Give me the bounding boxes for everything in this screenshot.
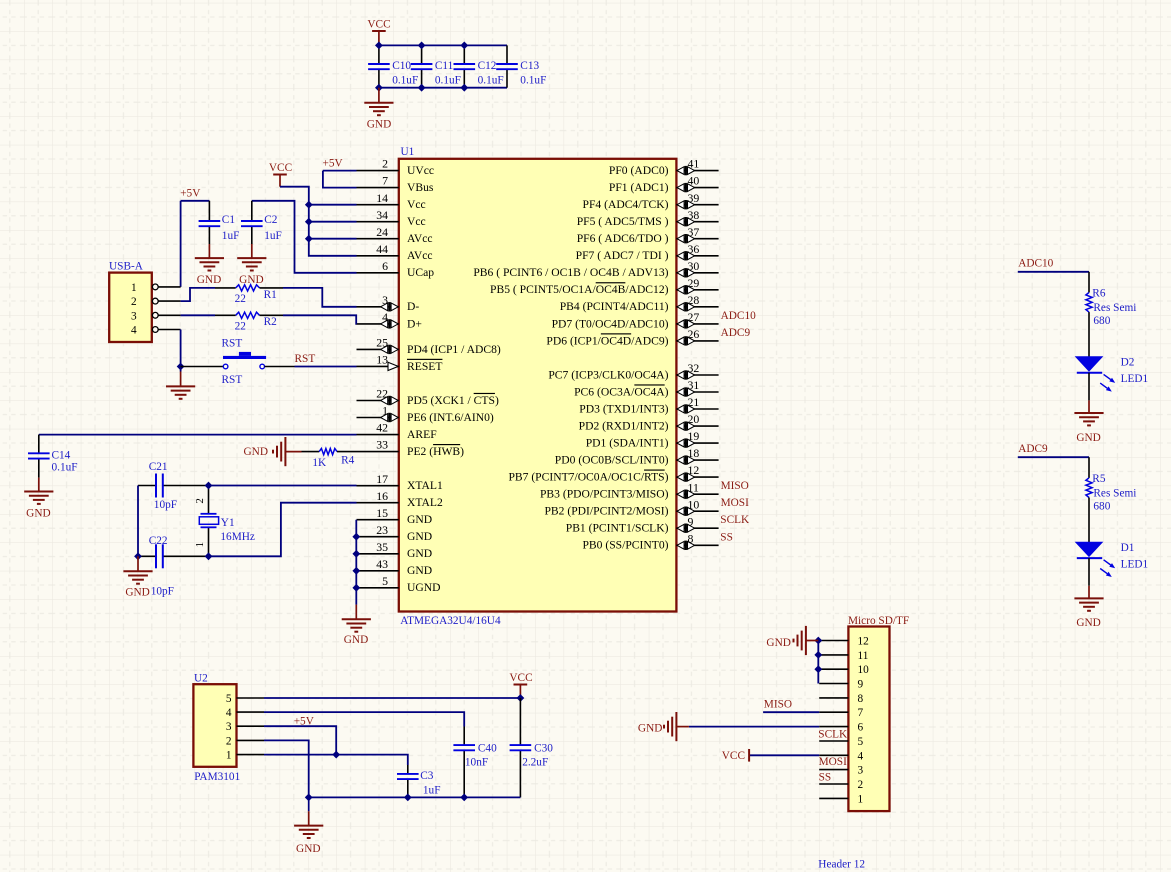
- svg-text:PD0 (OC0B/SCL/INT0): PD0 (OC0B/SCL/INT0): [555, 454, 669, 467]
- svg-text:1K: 1K: [312, 457, 327, 469]
- Micro SD pin 12: [819, 636, 869, 648]
- svg-text:GND: GND: [407, 547, 432, 560]
- svg-text:VBus: VBus: [407, 181, 434, 194]
- wire R2 to U1 pin 4: [283, 315, 357, 324]
- svg-text:Vcc: Vcc: [407, 198, 426, 211]
- ground GND under U1: [342, 605, 371, 647]
- svg-text:13: 13: [376, 353, 388, 367]
- ground GND under U2 rail: [294, 797, 323, 854]
- LED D2 LED1: [1076, 357, 1148, 392]
- wire U2 pin3 (+5V) down to pin1 rail: [264, 726, 336, 754]
- capacitor C40 10nF: [453, 727, 497, 798]
- svg-text:Res Semi: Res Semi: [1093, 302, 1136, 314]
- svg-text:21: 21: [688, 395, 700, 409]
- ground GND (sideways) at SD pin 6: [638, 712, 689, 741]
- svg-text:PD4 (ICP1 / ADC8): PD4 (ICP1 / ADC8): [407, 343, 501, 356]
- U1 pin 43 GND (left): [357, 557, 433, 577]
- svg-text:2: 2: [858, 779, 864, 791]
- svg-text:R4: R4: [341, 454, 355, 466]
- U1 pin 34 Vcc (left): [357, 208, 426, 228]
- U1 pin 35 GND (left): [357, 540, 433, 560]
- U1 pin 42 AREF (left): [357, 421, 438, 441]
- capacitor C3 1uF: [397, 765, 440, 797]
- svg-text:R6: R6: [1092, 288, 1106, 300]
- ground GND under C22 rail: [123, 556, 152, 598]
- svg-text:1uF: 1uF: [423, 784, 441, 796]
- svg-text:GND: GND: [26, 507, 50, 519]
- svg-text:RST: RST: [295, 353, 316, 365]
- svg-text:17: 17: [376, 472, 388, 486]
- wire SD pin 6 to GND: [689, 726, 819, 728]
- U1 pin 19 (right): [586, 429, 719, 449]
- svg-text:SCLK: SCLK: [818, 729, 848, 741]
- svg-text:D-: D-: [407, 300, 419, 313]
- svg-text:1: 1: [858, 793, 864, 805]
- svg-text:3: 3: [131, 310, 137, 322]
- U1 pin 12 (right): [508, 463, 718, 483]
- wire U1 GND bus (pins 15/23/35/43/5): [355, 520, 357, 605]
- U1 pin 15 GND (left): [357, 506, 433, 526]
- svg-text:41: 41: [688, 157, 700, 171]
- wire XTAL1 row: [138, 485, 357, 487]
- svg-text:RST: RST: [222, 374, 243, 386]
- svg-text:GND: GND: [1076, 617, 1100, 629]
- svg-text:PE2 (HWB): PE2 (HWB): [407, 445, 464, 458]
- svg-text:GND: GND: [197, 274, 221, 286]
- svg-text:GND: GND: [638, 722, 662, 734]
- svg-text:3: 3: [382, 293, 388, 307]
- svg-text:D+: D+: [407, 317, 422, 330]
- U1 pin 7 VBus (left): [357, 174, 434, 194]
- Micro SD pin 8: [819, 693, 863, 705]
- svg-text:4: 4: [226, 707, 232, 719]
- capacitor C1 1uF: [199, 201, 240, 244]
- svg-text:+5V: +5V: [180, 188, 201, 200]
- svg-text:PB0 (SS/PCINT0): PB0 (SS/PCINT0): [582, 539, 668, 552]
- U1 pin 2 UVcc (left): [357, 157, 435, 177]
- capacitor C13 0.1uF: [496, 45, 546, 87]
- svg-text:C10: C10: [392, 60, 411, 72]
- switch RST (push button): [222, 338, 267, 386]
- U1 pin 29 (right): [490, 276, 719, 296]
- svg-text:ADC10: ADC10: [1018, 258, 1053, 270]
- svg-text:42: 42: [376, 421, 388, 435]
- svg-text:1: 1: [226, 750, 232, 762]
- svg-text:35: 35: [376, 540, 388, 554]
- svg-text:0.1uF: 0.1uF: [392, 74, 418, 86]
- wire U2 pin4 to C40: [264, 712, 464, 726]
- wire USB pin4 down to GND: [180, 330, 182, 372]
- ground GND (sideways) at SD pin 12: [766, 626, 818, 655]
- svg-text:11: 11: [688, 480, 699, 494]
- svg-text:ADC9: ADC9: [721, 327, 751, 339]
- svg-text:UVcc: UVcc: [407, 164, 434, 177]
- capacitor C30 2.2uF: [510, 698, 554, 797]
- wire top bus of C10-C13: [379, 44, 507, 46]
- wire bottom bus of C10-C13: [379, 87, 507, 89]
- svg-text:C21: C21: [149, 461, 168, 473]
- U1 pin 5 UGND (left): [357, 574, 441, 594]
- U1 pin 33 name (left): [357, 438, 465, 458]
- U2 pin 5: [226, 693, 264, 705]
- svg-text:PE6 (INT.6/AIN0): PE6 (INT.6/AIN0): [407, 411, 494, 424]
- svg-text:40: 40: [688, 174, 700, 188]
- wire U2 pin1 to C3: [264, 755, 408, 765]
- Micro SD pin 10: [819, 664, 869, 676]
- capacitor C11 0.1uF: [411, 45, 461, 87]
- svg-text:Y1: Y1: [221, 517, 235, 529]
- svg-text:LED1: LED1: [1121, 558, 1149, 570]
- svg-text:+5V: +5V: [323, 158, 344, 170]
- junction dots crystal: [135, 482, 212, 559]
- capacitor C21 10pF: [149, 461, 177, 511]
- power port VCC (U1): [269, 162, 292, 187]
- svg-text:PD6 (ICP1/OC4D/ADC9): PD6 (ICP1/OC4D/ADC9): [546, 334, 668, 347]
- wire C14 to U1 AREF pin 42: [39, 434, 357, 436]
- svg-text:Micro SD/TF: Micro SD/TF: [848, 615, 909, 627]
- U1 pin 41 (right): [609, 157, 719, 177]
- U1 pin 8 (right): [582, 531, 718, 551]
- svg-text:30: 30: [688, 259, 700, 273]
- svg-text:PF6 ( ADC6/TDO ): PF6 ( ADC6/TDO ): [577, 232, 669, 245]
- power port VCC bar (SD pin 4): [722, 749, 749, 762]
- svg-text:LED1: LED1: [1121, 373, 1149, 385]
- svg-text:680: 680: [1093, 315, 1110, 327]
- svg-text:27: 27: [688, 310, 700, 324]
- svg-text:PD5 (XCK1 / CTS): PD5 (XCK1 / CTS): [407, 394, 499, 407]
- USB-A pin 2: [131, 296, 181, 308]
- USB-A pin 1: [131, 282, 181, 294]
- svg-text:UCap: UCap: [407, 266, 434, 279]
- U1 pin 20 (right): [579, 412, 719, 432]
- power port VCC (top bank): [367, 19, 390, 46]
- ground GND under C2: [237, 244, 266, 286]
- svg-text:USB-A: USB-A: [109, 260, 144, 272]
- svg-text:AVcc: AVcc: [407, 249, 433, 262]
- Micro SD pin 7: [819, 707, 863, 719]
- U1 pin 39 (right): [583, 191, 719, 211]
- LED D1 LED1: [1076, 542, 1148, 577]
- svg-text:PF1 (ADC1): PF1 (ADC1): [609, 181, 669, 194]
- svg-text:2.2uF: 2.2uF: [522, 757, 548, 769]
- resistor R1 22: [215, 285, 283, 305]
- svg-text:AVcc: AVcc: [407, 232, 433, 245]
- U2 pin 4: [226, 707, 264, 719]
- svg-text:+5V: +5V: [294, 715, 315, 727]
- USB-A pin 3: [131, 310, 181, 322]
- wire USB pin3 to R2: [181, 314, 215, 316]
- svg-text:XTAL1: XTAL1: [407, 479, 443, 492]
- svg-text:PB2 (PDI/PCINT2/MOSI): PB2 (PDI/PCINT2/MOSI): [544, 505, 668, 518]
- svg-text:0.1uF: 0.1uF: [435, 74, 461, 86]
- svg-text:C11: C11: [435, 60, 453, 72]
- svg-text:4: 4: [382, 310, 388, 324]
- svg-text:2: 2: [226, 735, 232, 747]
- U1 pin 10 (right): [544, 497, 718, 517]
- wire C2 to U1 UCap pin 6: [252, 201, 357, 273]
- svg-text:GND: GND: [1076, 432, 1100, 444]
- svg-text:AREF: AREF: [407, 428, 437, 441]
- U1 pin 27 (right): [552, 310, 719, 330]
- svg-text:R2: R2: [264, 316, 278, 328]
- svg-text:1: 1: [131, 282, 137, 294]
- svg-text:43: 43: [376, 557, 388, 571]
- Micro SD pin 11: [819, 650, 868, 662]
- svg-text:37: 37: [688, 225, 700, 239]
- svg-text:U1: U1: [401, 146, 415, 158]
- svg-text:22: 22: [235, 320, 247, 332]
- svg-text:MOSI: MOSI: [721, 497, 749, 509]
- svg-text:C3: C3: [420, 770, 434, 782]
- svg-text:3: 3: [226, 721, 232, 733]
- svg-text:10pF: 10pF: [151, 586, 174, 598]
- svg-text:16: 16: [376, 489, 388, 503]
- svg-text:C2: C2: [264, 214, 278, 226]
- svg-text:0.1uF: 0.1uF: [520, 74, 546, 86]
- svg-text:4: 4: [858, 750, 864, 762]
- svg-text:VCC: VCC: [367, 19, 390, 31]
- svg-text:PB1 (PCINT1/SCLK): PB1 (PCINT1/SCLK): [566, 522, 669, 535]
- svg-text:GND: GND: [344, 634, 368, 646]
- svg-text:5: 5: [226, 693, 232, 705]
- U1 pin 3 D- (left): [357, 293, 420, 313]
- svg-text:10pF: 10pF: [154, 499, 177, 511]
- power port VCC (U2): [509, 672, 532, 698]
- svg-text:32: 32: [688, 361, 700, 375]
- svg-text:29: 29: [688, 276, 700, 290]
- svg-text:PD7 (T0/OC4D/ADC10): PD7 (T0/OC4D/ADC10): [552, 317, 669, 330]
- svg-text:PF4 (ADC4/TCK): PF4 (ADC4/TCK): [583, 198, 669, 211]
- svg-text:2: 2: [131, 296, 137, 308]
- svg-text:VCC: VCC: [722, 750, 745, 762]
- capacitor C22 10pF: [149, 535, 174, 598]
- wire SD GND bus pins 12-9: [817, 641, 819, 684]
- U1 pin 11 (right): [540, 480, 719, 500]
- wire +5V to C1 and USB pin 1: [181, 200, 210, 202]
- U1 pin 31 (right): [574, 378, 718, 398]
- U1 pin 6 UCap (left): [357, 259, 435, 279]
- U1 pin 14 Vcc (left): [357, 191, 426, 211]
- svg-text:2: 2: [382, 157, 388, 171]
- svg-text:39: 39: [688, 191, 700, 205]
- wire RST switch to U1 pin 13: [265, 366, 357, 368]
- junction dots bottom rail: [306, 794, 468, 800]
- ground GND under C1: [195, 244, 224, 286]
- svg-text:PC6 (OC3A/OC4A): PC6 (OC3A/OC4A): [574, 385, 669, 398]
- Micro SD pin 1: [819, 793, 863, 805]
- ground under USB pin 4: [166, 372, 195, 399]
- junction dots GND bus: [353, 534, 359, 592]
- svg-text:PF0 (ADC0): PF0 (ADC0): [609, 164, 669, 177]
- U2 pin 1: [226, 750, 264, 762]
- capacitor C12 0.1uF: [454, 45, 504, 87]
- Micro SD pin 9: [819, 679, 863, 691]
- svg-text:Vcc: Vcc: [407, 215, 426, 228]
- svg-text:14: 14: [376, 191, 388, 205]
- wire R1 to U1 pin 3: [283, 288, 357, 307]
- svg-text:GND: GND: [407, 513, 432, 526]
- junction dot at RST tee: [177, 363, 183, 369]
- svg-text:22: 22: [235, 293, 247, 305]
- svg-text:5: 5: [858, 736, 864, 748]
- U1 pin 23 GND (left): [357, 523, 433, 543]
- svg-text:9: 9: [688, 514, 694, 528]
- svg-text:34: 34: [376, 208, 388, 222]
- svg-text:38: 38: [688, 208, 700, 222]
- junction dots SD GND bus: [815, 637, 821, 672]
- U1 pin 16 XTAL2 (left): [357, 489, 443, 509]
- svg-text:GND: GND: [296, 843, 320, 855]
- svg-text:MISO: MISO: [721, 480, 749, 492]
- svg-text:GND: GND: [125, 586, 149, 598]
- wire U2 pin2 down to GND rail: [264, 740, 309, 797]
- junction dots on cap bank buses: [376, 42, 468, 91]
- svg-text:R5: R5: [1092, 473, 1106, 485]
- svg-text:8: 8: [688, 531, 694, 545]
- Micro SD pin 3: [819, 765, 863, 777]
- svg-text:PD3 (TXD1/INT3): PD3 (TXD1/INT3): [579, 402, 668, 415]
- ground GND under D1: [1074, 586, 1103, 629]
- U1 pin 4 D+ (left): [357, 310, 422, 330]
- svg-text:1: 1: [382, 404, 388, 418]
- svg-text:Header 12: Header 12: [818, 859, 865, 871]
- svg-text:PAM3101: PAM3101: [194, 771, 240, 783]
- svg-text:PD2 (RXD1/INT2): PD2 (RXD1/INT2): [579, 420, 669, 433]
- wire LED to GND: [1088, 558, 1090, 586]
- svg-text:UGND: UGND: [407, 581, 441, 594]
- U1 pin 38 (right): [577, 208, 719, 228]
- U1 pin 36 (right): [576, 242, 719, 262]
- svg-text:8: 8: [858, 693, 864, 705]
- wire U2 pin5 to VCC: [264, 697, 520, 699]
- svg-text:VCC: VCC: [269, 162, 292, 174]
- svg-text:PB3 (PDO/PCINT3/MISO): PB3 (PDO/PCINT3/MISO): [540, 488, 669, 501]
- svg-text:MISO: MISO: [764, 699, 792, 711]
- Micro SD pin 6: [819, 722, 863, 734]
- U1 pin 17 XTAL1 (left): [357, 472, 443, 492]
- svg-text:1: 1: [194, 542, 206, 548]
- svg-text:XTAL2: XTAL2: [407, 496, 443, 509]
- svg-text:16MHz: 16MHz: [220, 531, 255, 543]
- resistor R6 Res Semi 680: [1086, 288, 1137, 357]
- svg-text:26: 26: [688, 327, 700, 341]
- wire +5V to U1 pin 2: [323, 170, 357, 172]
- U1 pin 26 (right): [546, 327, 718, 347]
- svg-text:33: 33: [376, 438, 388, 452]
- svg-text:5: 5: [382, 574, 388, 588]
- svg-text:Res Semi: Res Semi: [1093, 487, 1136, 499]
- svg-text:10nF: 10nF: [465, 757, 488, 769]
- U1 pin 28 (right): [560, 293, 719, 313]
- U1 pin 9 (right): [566, 514, 719, 534]
- wire VCC bus to U1 pins 14/34/24/44: [280, 187, 357, 256]
- svg-text:GND: GND: [239, 274, 263, 286]
- svg-text:PC7 (ICP3/CLK0/OC4A): PC7 (ICP3/CLK0/OC4A): [548, 368, 668, 381]
- junction dot pin1/+5V: [333, 751, 339, 757]
- svg-text:ATMEGA32U4/16U4: ATMEGA32U4/16U4: [400, 615, 501, 627]
- svg-text:C22: C22: [149, 535, 168, 547]
- wire LED to GND: [1088, 373, 1090, 401]
- svg-text:ADC9: ADC9: [1018, 443, 1048, 455]
- U1 pin 37 (right): [577, 225, 719, 245]
- wire MISO to SD pin 7: [763, 711, 819, 713]
- svg-text:C14: C14: [52, 449, 71, 461]
- wire ADC9 to resistor: [1018, 456, 1089, 458]
- wire ADC10 to resistor: [1018, 271, 1089, 273]
- svg-text:PB4 (PCINT4/ADC11): PB4 (PCINT4/ADC11): [560, 300, 669, 313]
- svg-text:RST: RST: [222, 338, 243, 350]
- svg-text:7: 7: [858, 707, 864, 719]
- capacitor C2 1uF: [241, 201, 282, 244]
- svg-text:PB7 (PCINT7/OC0A/OC1C/RTS): PB7 (PCINT7/OC0A/OC1C/RTS): [508, 471, 668, 484]
- U1 pin 30 (right): [473, 259, 718, 279]
- svg-text:SS: SS: [720, 531, 733, 543]
- svg-text:U2: U2: [194, 672, 208, 684]
- connector Micro SD/TF body: [848, 627, 889, 812]
- IC U1 ATMEGA32U4/16U4 body: [399, 159, 677, 612]
- svg-text:28: 28: [688, 293, 700, 307]
- svg-text:20: 20: [688, 412, 700, 426]
- svg-text:19: 19: [688, 429, 700, 443]
- svg-text:GND: GND: [244, 446, 268, 458]
- junction dots on VCC bus: [306, 202, 312, 242]
- wire C22 left pin: [138, 555, 155, 557]
- ground GND under C14: [24, 478, 53, 520]
- ground (top bank GND): [364, 88, 393, 131]
- wire U2 bottom GND rail: [309, 796, 521, 798]
- U1 pin 25 PD4 (ICP1 / ADC8) (left): [357, 336, 501, 356]
- wire XTAL2 path from crystal bottom: [163, 503, 356, 557]
- svg-text:GND: GND: [407, 530, 432, 543]
- wire +5V down to U1 pin 7: [323, 171, 357, 188]
- resistor R4 1K: [302, 449, 357, 470]
- svg-text:44: 44: [376, 242, 388, 256]
- svg-text:24: 24: [376, 225, 388, 239]
- svg-text:GND: GND: [407, 564, 432, 577]
- U1 pin 22 name (left): [357, 387, 499, 407]
- svg-text:22: 22: [376, 387, 388, 401]
- regulator U2 PAM3101 body: [193, 684, 236, 767]
- svg-text:1uF: 1uF: [264, 230, 282, 242]
- resistor R5 Res Semi 680: [1086, 473, 1137, 542]
- svg-text:18: 18: [688, 446, 700, 460]
- Micro SD pin 5: [819, 736, 863, 748]
- svg-text:1uF: 1uF: [222, 230, 240, 242]
- svg-text:7: 7: [382, 174, 388, 188]
- wire VCC to SD pin 4: [749, 754, 819, 756]
- U1 pin 24 AVcc (left): [357, 225, 433, 245]
- svg-text:11: 11: [858, 650, 869, 662]
- U1 pin 1 PE6 (INT.6/AIN0) (left): [357, 404, 494, 424]
- U2 pin 3: [226, 721, 264, 733]
- wire C21/C22 left rail: [137, 486, 139, 557]
- capacitor C14 0.1uF: [28, 435, 78, 478]
- U1 pin 40 (right): [609, 174, 719, 194]
- svg-text:10: 10: [858, 664, 870, 676]
- junction dot VCC/C30: [517, 695, 523, 701]
- svg-text:SCLK: SCLK: [720, 514, 750, 526]
- svg-text:15: 15: [376, 506, 388, 520]
- svg-text:ADC10: ADC10: [721, 310, 756, 322]
- svg-text:PD1 (SDA/INT1): PD1 (SDA/INT1): [586, 437, 669, 450]
- svg-text:2: 2: [194, 498, 206, 504]
- svg-text:680: 680: [1093, 501, 1110, 513]
- svg-text:PB5 ( PCINT5/OC1A/OC4B/ADC12): PB5 ( PCINT5/OC1A/OC4B/ADC12): [490, 283, 669, 296]
- svg-text:C13: C13: [520, 60, 539, 72]
- svg-text:0.1uF: 0.1uF: [52, 462, 78, 474]
- svg-text:3: 3: [858, 765, 864, 777]
- USB-A pin 4: [131, 325, 181, 337]
